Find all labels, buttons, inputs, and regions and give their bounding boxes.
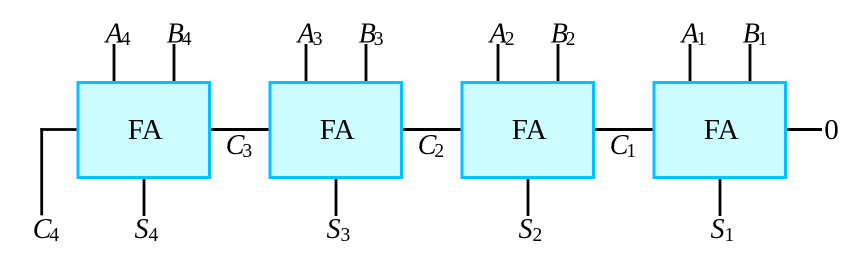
svg-text:A3: A3 — [296, 18, 323, 50]
wire B2 input — [557, 44, 560, 83]
svg-text:B3: B3 — [359, 18, 384, 50]
svg-text:C3: C3 — [226, 130, 252, 162]
svg-text:S4: S4 — [135, 214, 159, 246]
wire S1 output — [719, 177, 722, 216]
svg-text:FA: FA — [128, 114, 163, 146]
svg-text:A4: A4 — [104, 18, 131, 50]
svg-text:FA: FA — [320, 114, 355, 146]
wire A1 input — [689, 44, 692, 83]
wire Cin 0 — [786, 128, 823, 131]
wire S2 output — [527, 177, 530, 216]
wire S3 output — [335, 177, 338, 216]
svg-text:A1: A1 — [680, 18, 707, 50]
wire C3 carry — [209, 128, 272, 131]
wire B1 input — [749, 44, 752, 83]
full adder FA1 — [654, 83, 786, 178]
wire A2 input — [497, 44, 500, 83]
svg-text:S2: S2 — [519, 214, 543, 246]
svg-text:S1: S1 — [711, 214, 735, 246]
wire C1 carry — [593, 128, 656, 131]
wire A4 input — [113, 44, 116, 83]
wire C4 horizontal segment — [40, 128, 78, 131]
svg-text:S3: S3 — [327, 214, 351, 246]
wire A3 input — [305, 44, 308, 83]
svg-text:C2: C2 — [418, 130, 444, 162]
wire C4 vertical segment — [40, 128, 43, 215]
svg-text:FA: FA — [704, 114, 739, 146]
svg-text:FA: FA — [512, 114, 547, 146]
full adder FA2 — [462, 83, 594, 178]
full adder FA3 — [270, 83, 402, 178]
wire C2 carry — [401, 128, 464, 131]
svg-text:C4: C4 — [33, 214, 60, 246]
svg-text:C1: C1 — [610, 130, 636, 162]
full adder FA4 — [78, 83, 210, 178]
wire B4 input — [173, 44, 176, 83]
svg-text:B4: B4 — [167, 18, 192, 50]
svg-text:B1: B1 — [743, 18, 768, 50]
wire S4 output — [143, 177, 146, 216]
wire B3 input — [365, 44, 368, 83]
svg-text:B2: B2 — [551, 18, 576, 50]
svg-text:0: 0 — [824, 114, 839, 146]
svg-text:A2: A2 — [488, 18, 515, 50]
